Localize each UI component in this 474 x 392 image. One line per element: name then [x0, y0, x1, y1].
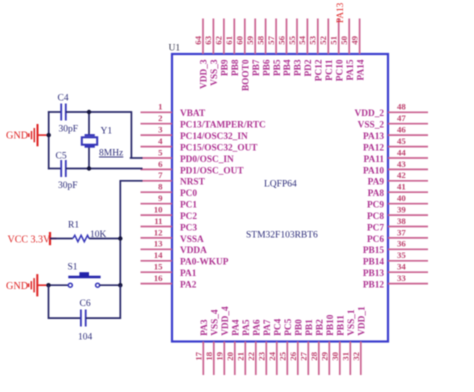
svg-text:NRST: NRST — [180, 178, 206, 188]
svg-text:59: 59 — [245, 35, 255, 44]
switch S1 pushbutton — [68, 272, 100, 287]
svg-text:11: 11 — [154, 216, 162, 226]
wire C6 loop left — [49, 285, 81, 318]
pin 57 PB5 (top) — [275, 19, 277, 55]
svg-text:PB5: PB5 — [273, 59, 283, 76]
wire into pin5 PD0/OSC_IN — [130, 157, 143, 159]
pin 7 NRST (left) — [141, 180, 173, 182]
pin 33 PB12 (right) — [388, 283, 428, 285]
svg-text:34: 34 — [397, 262, 406, 272]
svg-text:Y1: Y1 — [101, 127, 113, 137]
svg-text:VCC 3.3V: VCC 3.3V — [8, 235, 52, 246]
svg-text:42: 42 — [397, 170, 406, 180]
svg-text:PB3: PB3 — [294, 59, 304, 76]
svg-text:VDD_3: VDD_3 — [200, 59, 210, 89]
pin 30 PB11 (bottom) — [339, 342, 341, 376]
svg-text:PB0: PB0 — [295, 319, 305, 336]
svg-text:PB4: PB4 — [283, 59, 293, 76]
pin 52 PC11 (top) — [327, 19, 329, 55]
svg-text:25: 25 — [278, 351, 288, 360]
svg-text:PD2: PD2 — [304, 59, 314, 76]
svg-text:VSS_1: VSS_1 — [347, 309, 357, 336]
svg-text:R1: R1 — [68, 221, 79, 231]
pin 31 VSS_1 (bottom) — [349, 342, 351, 376]
pin 38 PC7 (right) — [388, 226, 428, 228]
svg-text:61: 61 — [224, 36, 234, 45]
svg-text:20: 20 — [225, 351, 235, 360]
pin 28 PB2 (bottom) — [318, 342, 320, 376]
svg-text:46: 46 — [397, 125, 406, 135]
svg-text:VDD_1: VDD_1 — [358, 306, 368, 336]
svg-text:U1: U1 — [169, 44, 181, 54]
svg-text:C6: C6 — [80, 299, 91, 309]
svg-text:PB8: PB8 — [231, 59, 241, 76]
crystal Y1 — [82, 112, 97, 169]
svg-text:PA15: PA15 — [346, 59, 356, 80]
svg-text:PC2: PC2 — [180, 212, 197, 222]
node: S1/NRST/C6 junction dot — [118, 283, 122, 287]
svg-text:PB12: PB12 — [363, 281, 385, 291]
wire into pin7 NRST — [120, 180, 143, 182]
node: OSC bottom junction dot — [87, 166, 91, 170]
svg-text:14: 14 — [154, 250, 163, 260]
pin 63 VSS_3 (top) — [212, 19, 214, 55]
pin 54 PD2 (top) — [306, 19, 308, 55]
node: OSC top junction dot — [87, 110, 91, 114]
svg-text:PC15/OSC32_OUT: PC15/OSC32_OUT — [180, 144, 258, 154]
svg-text:PA9: PA9 — [368, 178, 385, 188]
pin 17 PA3 (bottom) — [202, 342, 204, 376]
svg-text:1: 1 — [158, 102, 162, 112]
svg-text:104: 104 — [78, 333, 93, 343]
wire C5 to pin6 PD1/OSC_OUT — [66, 168, 143, 170]
wire VCC to R1 — [50, 238, 73, 240]
svg-text:17: 17 — [194, 351, 204, 360]
pin 53 PC12 (top) — [317, 19, 319, 55]
pin 44 PA11 (right) — [388, 157, 428, 159]
resistor R1 — [73, 235, 89, 241]
svg-text:26: 26 — [288, 351, 298, 360]
svg-text:PB13: PB13 — [363, 269, 385, 279]
svg-text:51: 51 — [329, 36, 339, 45]
svg-text:VSS_2: VSS_2 — [358, 121, 385, 131]
pin 8 PC0 (left) — [141, 191, 173, 193]
pin 16 PA2 (left) — [141, 283, 173, 285]
pin 47 VSS_2 (right) — [388, 123, 428, 125]
svg-text:PB9: PB9 — [221, 59, 231, 76]
svg-text:C4: C4 — [58, 94, 69, 104]
svg-text:49: 49 — [349, 35, 359, 44]
svg-text:PA0-WKUP: PA0-WKUP — [180, 258, 229, 268]
svg-text:10: 10 — [154, 205, 163, 215]
svg-text:PA4: PA4 — [232, 319, 242, 336]
pin 64 VDD_3 (top) — [202, 19, 204, 55]
svg-text:VDD_4: VDD_4 — [221, 306, 231, 336]
svg-text:VSSA: VSSA — [180, 235, 204, 245]
svg-text:PC12: PC12 — [315, 59, 325, 81]
svg-text:PC7: PC7 — [367, 223, 384, 233]
svg-text:7: 7 — [158, 170, 163, 180]
svg-text:15: 15 — [154, 262, 163, 272]
svg-text:PA2: PA2 — [180, 281, 197, 291]
svg-text:PA1: PA1 — [180, 269, 197, 279]
svg-text:PC0: PC0 — [180, 189, 197, 199]
capacitor C6 — [81, 310, 86, 327]
pin 25 PC5 (bottom) — [286, 342, 288, 376]
svg-text:32: 32 — [351, 351, 361, 360]
pin 39 PC8 (right) — [388, 214, 428, 216]
svg-text:PB10: PB10 — [326, 314, 336, 336]
pin 2 PC13/TAMPER/RTC (left) — [141, 123, 173, 125]
svg-text:PA13: PA13 — [363, 132, 384, 142]
svg-text:GND: GND — [6, 281, 28, 292]
svg-text:BOOT0: BOOT0 — [242, 59, 252, 91]
pin 27 PB1 (bottom) — [307, 342, 309, 376]
pin 29 PB10 (bottom) — [328, 342, 330, 376]
pin 11 PC3 (left) — [141, 226, 173, 228]
svg-text:PC4: PC4 — [274, 318, 284, 335]
svg-text:40: 40 — [397, 193, 406, 203]
wire S1 to NRST rail — [100, 284, 121, 286]
svg-text:4: 4 — [158, 136, 163, 146]
svg-text:PA5: PA5 — [242, 319, 252, 336]
pin 56 PB4 (top) — [286, 19, 288, 55]
wire left vertical rail (GND to C4/C5) — [48, 111, 50, 169]
pin 9 PC1 (left) — [141, 203, 173, 205]
svg-text:PB6: PB6 — [262, 59, 272, 76]
svg-text:PA7: PA7 — [263, 319, 273, 336]
svg-text:45: 45 — [397, 136, 406, 146]
svg-text:22: 22 — [246, 351, 256, 360]
pin 6 PD1/OSC_OUT (left) — [141, 168, 173, 170]
pin 15 PA1 (left) — [141, 271, 173, 273]
svg-text:C5: C5 — [56, 152, 67, 162]
svg-text:57: 57 — [266, 35, 276, 44]
wire GND to S1 — [49, 284, 69, 286]
svg-text:PC6: PC6 — [367, 235, 384, 245]
pin 40 PC9 (right) — [388, 203, 428, 205]
svg-text:5: 5 — [158, 147, 163, 157]
svg-text:38: 38 — [397, 216, 406, 226]
capacitor C5 — [61, 160, 66, 177]
svg-text:12: 12 — [154, 227, 163, 237]
svg-text:PC10: PC10 — [335, 59, 345, 81]
svg-text:GND: GND — [6, 131, 28, 142]
svg-text:60: 60 — [235, 35, 245, 44]
svg-text:33: 33 — [397, 273, 406, 283]
pin 48 VDD_2 (right) — [388, 111, 428, 113]
svg-text:30: 30 — [330, 351, 340, 360]
svg-text:6: 6 — [158, 159, 163, 169]
svg-text:PC8: PC8 — [367, 212, 384, 222]
pin 13 VDDA (left) — [141, 248, 173, 250]
pin 41 PA8 (right) — [388, 191, 428, 193]
wire corner down to pin5 row — [130, 111, 132, 158]
svg-text:43: 43 — [397, 159, 406, 169]
svg-text:64: 64 — [193, 35, 203, 44]
ground GND (crystal) — [29, 124, 49, 146]
svg-text:PA10: PA10 — [363, 166, 384, 176]
pin 20 PA4 (bottom) — [234, 342, 236, 376]
svg-text:PC5: PC5 — [284, 318, 294, 335]
wire NRST vertical rail — [119, 180, 121, 285]
svg-text:VSS_4: VSS_4 — [211, 309, 221, 336]
svg-text:8: 8 — [158, 182, 163, 192]
pin 51 PC10 (top) — [338, 19, 340, 55]
pin 45 PA12 (right) — [388, 146, 428, 148]
wire R1 to NRST rail — [89, 238, 120, 240]
svg-text:PB15: PB15 — [363, 246, 385, 256]
svg-text:PB14: PB14 — [363, 258, 385, 268]
pin 12 VSSA (left) — [141, 237, 173, 239]
svg-text:29: 29 — [320, 351, 330, 360]
wire C4 to corner above pin5 — [66, 111, 132, 113]
svg-text:37: 37 — [397, 227, 406, 237]
svg-text:PB11: PB11 — [337, 315, 347, 336]
pin 19 VDD_4 (bottom) — [223, 342, 225, 376]
svg-text:PA13: PA13 — [336, 2, 346, 23]
svg-text:PB1: PB1 — [305, 319, 315, 336]
MCU U1 STM32F103RBT6 body — [172, 54, 388, 342]
pin 10 PC2 (left) — [141, 214, 173, 216]
pin 18 VSS_4 (bottom) — [213, 342, 215, 376]
pin 62 PB9 (top) — [223, 19, 225, 55]
capacitor C4 — [61, 104, 66, 121]
pin 32 VDD_1 (bottom) — [360, 342, 362, 376]
svg-text:9: 9 — [158, 193, 163, 203]
pin 59 PB7 (top) — [254, 19, 256, 55]
svg-text:PB2: PB2 — [316, 319, 326, 336]
pin 42 PA9 (right) — [388, 180, 428, 182]
svg-text:PA12: PA12 — [363, 144, 384, 154]
pin 50 PA15 (top) — [348, 19, 350, 55]
wire C6 loop right — [86, 285, 121, 318]
svg-text:PC11: PC11 — [325, 59, 335, 81]
svg-text:44: 44 — [397, 147, 406, 157]
svg-text:PA11: PA11 — [364, 155, 385, 165]
pin 23 PA7 (bottom) — [265, 342, 267, 376]
power port VCC 3.3V — [49, 232, 51, 245]
svg-text:PC14/OSC32_IN: PC14/OSC32_IN — [180, 132, 248, 142]
svg-text:39: 39 — [397, 205, 406, 215]
pin 35 PB14 (right) — [388, 260, 428, 262]
svg-text:21: 21 — [236, 352, 246, 361]
pin 14 PA0-WKUP (left) — [141, 260, 173, 262]
pin 58 PB6 (top) — [265, 19, 267, 55]
svg-text:3: 3 — [158, 125, 163, 135]
power lead VCC (red) — [50, 238, 57, 240]
svg-text:48: 48 — [397, 102, 406, 112]
svg-text:PB7: PB7 — [252, 59, 262, 76]
svg-text:41: 41 — [397, 182, 406, 192]
svg-text:28: 28 — [309, 351, 319, 360]
svg-text:13: 13 — [154, 239, 163, 249]
svg-text:23: 23 — [257, 351, 267, 360]
pin 22 PA6 (bottom) — [255, 342, 257, 376]
svg-text:53: 53 — [308, 35, 318, 44]
svg-text:54: 54 — [297, 35, 307, 44]
svg-text:PD1/OSC_OUT: PD1/OSC_OUT — [180, 166, 244, 176]
pin 60 BOOT0 (top) — [244, 19, 246, 55]
svg-text:30pF: 30pF — [58, 181, 78, 191]
svg-text:63: 63 — [203, 35, 213, 44]
svg-text:18: 18 — [204, 351, 214, 360]
svg-text:PA14: PA14 — [356, 59, 366, 80]
svg-text:PD0/OSC_IN: PD0/OSC_IN — [180, 155, 234, 165]
pin 1 VBAT (left) — [141, 111, 173, 113]
pin 3 PC14/OSC32_IN (left) — [141, 134, 173, 136]
svg-text:47: 47 — [397, 113, 406, 123]
svg-text:19: 19 — [215, 351, 225, 360]
svg-text:36: 36 — [397, 239, 406, 249]
node: GND/S1/C6 junction dot — [46, 283, 50, 287]
svg-text:PA8: PA8 — [368, 189, 385, 199]
svg-text:VBAT: VBAT — [180, 109, 206, 119]
node: R1/NRST junction dot — [118, 236, 122, 240]
svg-text:58: 58 — [255, 35, 265, 44]
wire OSC bottom net: rail to C5 — [48, 168, 61, 170]
pin 49 PA14 (top) — [359, 19, 361, 55]
svg-text:50: 50 — [339, 35, 349, 44]
svg-text:STM32F103RBT6: STM32F103RBT6 — [246, 231, 318, 241]
svg-text:62: 62 — [214, 35, 224, 44]
svg-text:52: 52 — [318, 35, 328, 44]
svg-text:2: 2 — [158, 113, 163, 123]
pin 24 PC4 (bottom) — [276, 342, 278, 376]
svg-text:35: 35 — [397, 250, 406, 260]
svg-text:VSS_3: VSS_3 — [210, 59, 220, 86]
svg-text:8MHz: 8MHz — [99, 149, 123, 159]
svg-text:55: 55 — [287, 35, 297, 44]
svg-text:PC1: PC1 — [180, 201, 197, 211]
pin 55 PB3 (top) — [296, 19, 298, 55]
pin 46 PA13 (right) — [388, 134, 428, 136]
wire OSC top net: GND rail to C4 — [48, 111, 61, 113]
svg-text:56: 56 — [276, 35, 286, 44]
svg-text:PC13/TAMPER/RTC: PC13/TAMPER/RTC — [180, 121, 266, 131]
pin 5 PD0/OSC_IN (left) — [141, 157, 173, 159]
svg-text:24: 24 — [267, 351, 277, 360]
svg-text:VDD_2: VDD_2 — [355, 109, 385, 119]
svg-text:PA3: PA3 — [200, 319, 210, 336]
pin 4 PC15/OSC32_OUT (left) — [141, 146, 173, 148]
ground GND (reset) — [29, 274, 49, 296]
svg-text:31: 31 — [341, 352, 351, 361]
pin 43 PA10 (right) — [388, 168, 428, 170]
svg-text:30pF: 30pF — [59, 125, 79, 135]
svg-text:PA6: PA6 — [253, 319, 263, 336]
svg-text:PC3: PC3 — [180, 223, 197, 233]
node: GND junction dot on rail — [47, 133, 51, 137]
svg-text:PC9: PC9 — [367, 201, 384, 211]
pin 26 PB0 (bottom) — [297, 342, 299, 376]
pin 34 PB13 (right) — [388, 271, 428, 273]
pin 37 PC6 (right) — [388, 237, 428, 239]
svg-text:16: 16 — [154, 273, 163, 283]
svg-text:LQFP64: LQFP64 — [264, 180, 297, 190]
svg-text:27: 27 — [299, 351, 309, 360]
pin 21 PA5 (bottom) — [244, 342, 246, 376]
svg-text:S1: S1 — [68, 263, 78, 273]
pin 61 PB8 (top) — [233, 19, 235, 55]
pin 36 PB15 (right) — [388, 248, 428, 250]
svg-text:VDDA: VDDA — [180, 246, 207, 256]
